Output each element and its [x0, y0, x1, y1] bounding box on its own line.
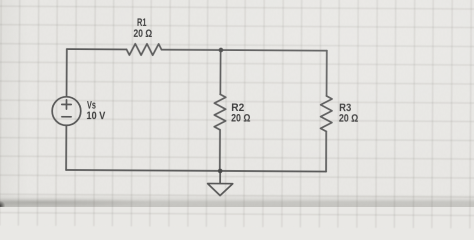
wire: Vs negative terminal to bottom-left corner	[65, 126, 67, 170]
resistor R3 body	[321, 96, 333, 132]
svg-text:20 Ω: 20 Ω	[231, 112, 251, 124]
resistor R1 body	[126, 44, 161, 56]
wire: left vertical, top corner to Vs positive terminal	[66, 49, 68, 96]
wire: top-left corner to R1 left lead	[67, 48, 127, 50]
svg-text:10 V: 10 V	[86, 110, 105, 122]
wire: top-right corner down to R3 top	[326, 51, 328, 96]
ground stub wire	[219, 171, 221, 184]
wire: R1 right lead to node A	[162, 49, 221, 51]
svg-text:20 Ω: 20 Ω	[133, 28, 152, 40]
wire: R2 bottom lead to node B	[219, 130, 221, 171]
node A junction dot	[219, 48, 224, 53]
ground symbol triangle	[208, 184, 233, 196]
voltage source Vs circle	[52, 97, 81, 126]
node B junction dot	[218, 169, 223, 174]
resistor R2 body	[214, 94, 226, 130]
Vs minus sign	[62, 116, 71, 118]
wire: R2 top lead from node A	[219, 50, 221, 94]
wire: bottom-left corner to node B	[66, 169, 220, 172]
dark speck bottom-left corner	[0, 201, 5, 207]
wire: R3 bottom lead to bottom-right corner	[325, 131, 327, 171]
wire: node A to top-right corner	[221, 49, 327, 52]
svg-text:20 Ω: 20 Ω	[339, 113, 359, 125]
Vs plus sign	[62, 100, 71, 109]
wire: node B to bottom-right corner	[220, 170, 326, 173]
